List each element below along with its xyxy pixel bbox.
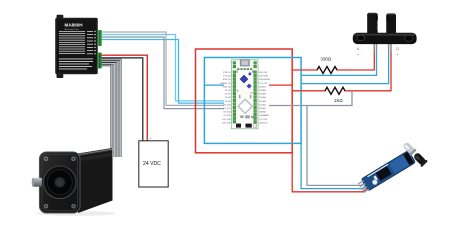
nano right pin labels [259,72,271,124]
svg-text:(24) A5: (24) A5 [259,93,267,96]
wire blue GND stub to arduino [204,84,224,86]
wire red loop around arduino [196,49,293,153]
svg-text:330Ω: 330Ω [321,57,332,62]
wire motor B+ [102,63,115,157]
svg-text:+: + [357,53,359,57]
nano corner pads [233,62,257,68]
resistor R1 zigzag black overlay [317,67,337,74]
arduino nano U1 [220,60,271,129]
resistor R1 330 ohm with red wire to sensor leg A [292,44,374,74]
nano mcu diamond [238,99,252,113]
motor shaft [33,178,42,187]
motor screws [44,157,49,162]
IR sensor module photo [357,141,428,194]
label D plus red [397,47,400,57]
nano mid gray blocks [240,115,253,118]
IR silk text [367,164,392,183]
wire DIR+ gray from driver to arduino [102,32,225,105]
svg-text:D9 (13): D9 (13) [224,115,232,117]
sensor right hole [405,35,413,41]
svg-text:(18) AREF: (18) AREF [259,114,270,117]
wire red +5V stub from arduino [269,84,292,86]
svg-text:MA860H: MA860H [65,23,84,28]
IR pcb [361,150,415,190]
nano board [232,60,259,129]
svg-text:DTR (1): DTR (1) [223,72,231,74]
driver table text block [59,31,85,54]
wire motor B- [102,65,112,157]
IR black LED [412,151,428,167]
terminal block upper [98,30,102,46]
power supply 24 VDC box [139,137,168,188]
terminal block lower [98,53,102,69]
sensor left tower [367,14,378,34]
svg-text:D11 (15): D11 (15) [222,122,231,124]
resistor R2 1K ohm with red wire to sensor leg D [292,44,391,94]
svg-text:D8 (12): D8 (12) [224,112,232,114]
svg-text:(19) A0: (19) A0 [259,111,267,114]
svg-text:(20) A1: (20) A1 [259,107,267,110]
stepper motor photo [32,148,116,216]
svg-text:RXD (3): RXD (3) [223,79,231,81]
wire gray branch to IR sensor [307,106,368,186]
driver dip dots [94,31,95,55]
svg-text:GND (5): GND (5) [223,86,231,88]
driver body [56,18,98,74]
motor shadow [36,211,116,216]
wire PUL- cyan from driver to arduino [102,40,225,104]
svg-text:Microstep Driver: Microstep Driver [65,28,80,31]
svg-text:(21) A2: (21) A2 [259,103,267,106]
svg-text:(25) A6: (25) A6 [259,89,267,92]
wire blue to sensor right tower leg [301,44,389,84]
IR header black [403,152,413,165]
sensor right tower [386,15,396,34]
nano usb [240,60,249,66]
driver bottom label rows [59,59,93,70]
wire PUL+ cyan from driver to arduino D? [102,35,225,101]
wire +V red from driver to 24VDC [102,55,148,140]
wire DIR- gray from driver to arduino [102,37,225,109]
sensor base bar [353,33,417,44]
svg-text:TXD (2): TXD (2) [223,76,231,78]
nano small chip 2 [249,73,252,76]
motor face plate [40,152,81,213]
nano ftdi chip [240,75,248,83]
opto slot sensor photo [353,13,417,44]
driver table grid lines [63,31,81,55]
flange tab bottom [57,72,64,78]
driver dip label column [87,31,93,54]
svg-text:-: - [139,137,140,141]
svg-text:(26) A7: (26) A7 [259,85,267,88]
wire blue loop around arduino [204,58,301,144]
svg-text:(30) VIN: (30) VIN [259,72,268,74]
svg-text:D6 (10): D6 (10) [224,104,232,106]
svg-text:(29) GND: (29) GND [259,76,269,78]
sensor legs gray [374,43,391,51]
svg-text:1KΩ: 1KΩ [334,98,343,103]
IR mounting hole [371,179,378,186]
IR clear LED [402,141,417,156]
svg-text:D7 (11): D7 (11) [224,108,231,110]
wire motor A- [102,62,118,157]
nano bottom parts [236,124,241,128]
svg-text:D5 (9): D5 (9) [225,101,231,103]
nano left pin labels [220,72,231,124]
svg-text:D2 (6): D2 (6) [225,90,231,92]
svg-text:24 VDC: 24 VDC [143,161,161,167]
svg-text:RESET (4): RESET (4) [220,83,231,85]
svg-text:(27) +5V: (27) +5V [259,83,268,85]
nano smd row [237,68,252,70]
svg-text:VOF 210: VOF 210 [376,20,380,31]
svg-text:(17) 3V3: (17) 3V3 [259,119,268,121]
svg-text:D3 (7): D3 (7) [225,94,231,96]
svg-text:(22) A3: (22) A3 [259,100,267,103]
resistor R2 zigzag black overlay [325,87,345,94]
svg-text:TCST 2103: TCST 2103 [395,18,399,32]
svg-text:+: + [397,53,399,57]
IR ic chip [376,166,392,181]
IR pins [358,180,369,193]
nano left pads [233,71,236,123]
motor body [78,148,113,213]
svg-text:(28) RESET: (28) RESET [259,79,271,81]
nano passives [236,70,253,98]
svg-text:(16) D13: (16) D13 [259,122,268,124]
motor face circle [44,166,77,199]
wire GND black from driver to 24VDC [102,58,143,141]
motor body top sheen [78,148,113,156]
wire blue extension to IR sensor [301,143,368,188]
wire blue to sensor left tower leg [301,44,376,75]
motor body rib shading [78,153,113,162]
flange tab top [57,15,64,20]
svg-text:D10 (14): D10 (14) [222,119,231,121]
wire motor A+ [102,60,121,157]
label A plus red [357,47,360,57]
stepper driver MA860H [56,15,102,78]
wire red extension to IR sensor [292,153,369,192]
sensor left hole [357,35,365,41]
svg-text:+: + [150,137,152,141]
svg-text:D4 (8): D4 (8) [225,97,231,99]
wire gray from arduino to R2 junction [269,91,352,106]
nano right pads [254,71,257,123]
svg-text:(23) A4: (23) A4 [259,96,267,99]
motor shaft boss [54,177,65,188]
nano small chip [247,84,252,89]
